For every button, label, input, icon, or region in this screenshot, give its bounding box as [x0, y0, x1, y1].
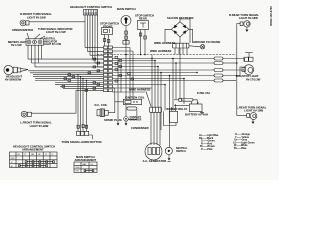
svg-text:BREAKER: BREAKER	[130, 119, 142, 122]
svg-text:LIGHT 6V-18W: LIGHT 6V-18W	[239, 16, 258, 20]
svg-text:FUSE 15A: FUSE 15A	[197, 91, 210, 95]
wire main frame line	[97, 54, 236, 56]
lamp L rear turn signal	[237, 113, 257, 120]
headlight symbol	[4, 65, 28, 74]
condenser	[126, 105, 137, 120]
svg-text:LIGHT 6V-18W: LIGHT 6V-18W	[244, 109, 263, 113]
svg-text:Bl——Blue: Bl——Blue	[234, 147, 247, 150]
wire R rear signal lead	[237, 24, 240, 63]
svg-text:MAIN SWITCH: MAIN SWITCH	[117, 7, 136, 11]
bullet connectors on trunk lines	[62, 57, 134, 92]
AC generator	[145, 143, 162, 160]
svg-text:LIGHT 6V-1.5W: LIGHT 6V-1.5W	[44, 43, 62, 46]
wire headlight switch leads	[85, 15, 104, 67]
svg-text:D.C. COIL: D.C. COIL	[95, 103, 108, 107]
svg-text:P——Pink: P——Pink	[201, 148, 213, 151]
svg-text:BATTERY 6V 4AH: BATTERY 6V 4AH	[185, 112, 208, 116]
svg-text:R.FRONT TURN SIGNAL: R.FRONT TURN SIGNAL	[20, 12, 52, 16]
ground arrow mid	[117, 99, 120, 125]
wire speedometer leads	[28, 45, 42, 67]
legend wire colours	[199, 133, 255, 151]
svg-text:WIRE HARNESS: WIRE HARNESS	[150, 49, 172, 53]
svg-text:WIRE HARNESS: WIRE HARNESS	[129, 88, 151, 92]
svg-text:LIGHT 6V-1.5W: LIGHT 6V-1.5W	[46, 30, 66, 34]
harness 4pin connector	[150, 107, 162, 145]
wire main switch lead	[123, 26, 129, 55]
wire right verticals	[236, 63, 238, 116]
stop switch front	[102, 28, 113, 35]
wire harness connector block	[173, 43, 190, 54]
ignition coil	[123, 99, 141, 104]
main switch symbol	[121, 16, 131, 26]
svg-text:IG: IG	[91, 164, 94, 166]
ground neutral switch	[168, 155, 171, 162]
svg-text:IGNITION COIL: IGNITION COIL	[125, 96, 145, 100]
svg-text:SPARK PLUG: SPARK PLUG	[104, 118, 122, 122]
silicon rectifier bridge	[171, 22, 189, 37]
wire rectifier leads	[165, 19, 193, 43]
wire L front signal lead	[31, 90, 76, 113]
svg-text:REAR: REAR	[139, 17, 147, 21]
battery	[174, 102, 204, 114]
main switch table	[74, 162, 97, 173]
svg-text:6V-1.5W: 6V-1.5W	[11, 43, 22, 47]
wire R front signal to harness	[29, 21, 85, 23]
wire verticals mid right	[118, 48, 184, 149]
svg-text:CONDENSER: CONDENSER	[131, 126, 149, 130]
svg-text:LIGHT 6V-18W: LIGHT 6V-18W	[30, 124, 49, 128]
turn signal horn button	[77, 75, 93, 140]
speedometer lamp cluster	[26, 33, 45, 45]
svg-text:ON: ON	[76, 171, 80, 173]
ground R rear signal	[245, 27, 248, 32]
winker relay	[164, 104, 178, 126]
headlight control switch connector	[84, 10, 98, 16]
spark plug	[97, 88, 123, 117]
ground to frame symbol	[190, 45, 205, 49]
svg-text:HEADLIGHT CONTROL SWITCH: HEADLIGHT CONTROL SWITCH	[70, 5, 112, 9]
central connector strip	[104, 46, 113, 92]
svg-text:TURN SIGNAL·HORN BUTTON: TURN SIGNAL·HORN BUTTON	[62, 140, 102, 144]
wire stop switch front leads	[103, 35, 110, 47]
ground L rear signal	[252, 119, 255, 124]
svg-text:6V-17/5.3W: 6V-17/5.3W	[246, 77, 261, 81]
svg-text:SPEEDOMETER: SPEEDOMETER	[12, 28, 33, 32]
svg-text:LIGHT 6V-18W: LIGHT 6V-18W	[27, 16, 46, 20]
svg-text:6V-25W/25W: 6V-25W/25W	[5, 78, 22, 82]
svg-text:ARRANGEMENT: ARRANGEMENT	[22, 148, 44, 152]
lamp R rear turn signal	[240, 21, 250, 27]
svg-text:FRONT: FRONT	[103, 25, 113, 29]
tail light bracket	[244, 53, 253, 62]
wire harness trunk lines left	[28, 59, 104, 90]
svg-text:00302-102-6700: 00302-102-6700	[269, 6, 273, 26]
svg-text:GROUND TO FRAME: GROUND TO FRAME	[193, 40, 220, 44]
contact breaker	[124, 117, 129, 126]
svg-text:A.C. GENERATOR: A.C. GENERATOR	[143, 159, 167, 163]
neutral switch	[165, 147, 172, 154]
svg-text:ARRANGEMENT: ARRANGEMENT	[75, 158, 97, 162]
lamp R front turn signal	[20, 20, 29, 26]
stop switch rear	[138, 21, 149, 30]
svg-text:WINKER RELAY: WINKER RELAY	[166, 107, 187, 111]
lamp L front turn signal	[21, 111, 31, 117]
headlight switch table	[10, 152, 58, 168]
lamp tail stop light	[242, 65, 254, 75]
fuse	[174, 98, 197, 104]
svg-text:SWITCH: SWITCH	[176, 150, 186, 153]
wire strip outputs right	[113, 48, 215, 93]
wire stop switch rear leads	[139, 30, 146, 55]
svg-text:OFF: OFF	[76, 167, 81, 169]
junction dots	[77, 54, 237, 86]
bullet connectors right column	[214, 57, 245, 82]
